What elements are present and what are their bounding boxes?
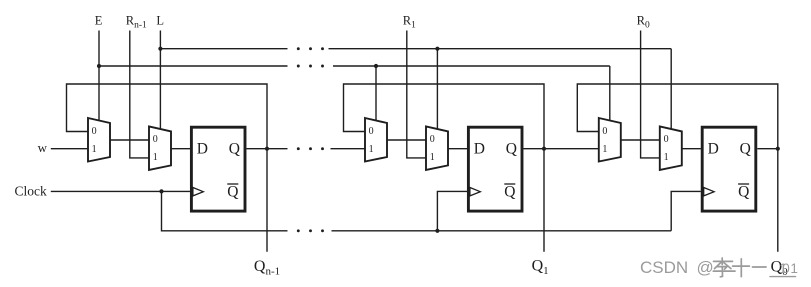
wire Q feedback loop stage 2	[344, 84, 545, 252]
svg-text:1: 1	[790, 261, 798, 276]
svg-text:CSDN: CSDN	[640, 258, 688, 277]
svg-text:Q: Q	[506, 141, 517, 158]
junction: Q node stage 1	[265, 147, 269, 151]
D flip-flop stage 2	[468, 127, 522, 211]
clock triangle stage 3	[704, 188, 714, 196]
wire w input	[51, 148, 88, 150]
svg-text:1: 1	[92, 144, 97, 155]
svg-text:0: 0	[430, 134, 435, 145]
multiplexer (L select) stage 2	[426, 126, 448, 169]
svg-text:@: @	[697, 258, 714, 277]
wire mux output stage 1	[110, 139, 149, 141]
wire L-bus right segment	[329, 48, 672, 50]
junction: E bus tap stage 1	[97, 64, 101, 68]
wire clock riser stage 2	[437, 191, 467, 230]
wire clock bus right segment	[332, 230, 672, 232]
svg-text:1: 1	[369, 144, 374, 155]
multiplexer (E select) stage 2	[365, 118, 387, 162]
svg-text:D: D	[708, 141, 719, 158]
clock triangle stage 1	[193, 188, 203, 196]
svg-text:Q: Q	[740, 141, 751, 158]
D flip-flop stage 1	[191, 127, 245, 211]
wire mux output stage 2	[387, 139, 426, 141]
ellipsis dots (bus continuation)	[297, 47, 300, 50]
wire Q feedback loop stage 1	[67, 84, 268, 252]
svg-text:1: 1	[664, 152, 669, 163]
junction: Q node stage 2	[542, 147, 546, 151]
multiplexer (E select) stage 3	[599, 118, 621, 162]
clock triangle stage 2	[470, 188, 480, 196]
wire Q output stage 2	[524, 148, 599, 150]
svg-text:Q: Q	[738, 184, 749, 201]
wire shift input stage 2	[331, 148, 366, 150]
wire E select vertical stage 1	[98, 31, 100, 122]
wire L select vertical stage 3	[670, 49, 672, 130]
wire Q output stage 3	[757, 148, 778, 150]
junction: E bus tap stage 2	[374, 64, 378, 68]
wire R input vertical stage 2	[407, 31, 426, 158]
junction: clock tap stage 2	[435, 229, 439, 233]
wire D input stage 2	[448, 148, 467, 150]
junction: L bus tap stage 1	[158, 47, 162, 51]
multiplexer (L select) stage 1	[149, 126, 171, 169]
svg-text:Q: Q	[504, 184, 515, 201]
junction: Q node stage 3	[776, 147, 780, 151]
wire R input vertical stage 3	[641, 31, 660, 158]
svg-text:w: w	[38, 140, 48, 155]
svg-text:Clock: Clock	[15, 183, 47, 198]
wire L select vertical stage 1	[159, 31, 161, 130]
svg-text:0: 0	[92, 126, 97, 137]
junction: L bus tap stage 2	[435, 47, 439, 51]
wire mux output stage 3	[621, 139, 660, 141]
svg-text:0: 0	[369, 126, 374, 137]
wire D input stage 3	[682, 148, 701, 150]
wire E select vertical stage 2	[375, 66, 377, 121]
watermark underline	[770, 276, 796, 278]
multiplexer (L select) stage 3	[660, 126, 682, 169]
multiplexer (E select) stage 1	[88, 118, 110, 162]
wire L-bus left segment	[160, 48, 287, 50]
svg-text:D: D	[197, 141, 208, 158]
svg-text:1: 1	[153, 152, 158, 163]
D flip-flop stage 3	[702, 127, 756, 211]
watermark CSDN @李十一101	[713, 258, 795, 277]
svg-text:L: L	[156, 14, 164, 28]
svg-text:Q: Q	[229, 141, 240, 158]
svg-text:1: 1	[430, 152, 435, 163]
svg-text:0: 0	[602, 126, 607, 137]
wire Q output stage 1	[247, 148, 288, 150]
svg-text:Q: Q	[227, 184, 238, 201]
wire clock riser stage 3	[671, 191, 701, 230]
svg-text:1: 1	[602, 144, 607, 155]
svg-text:E: E	[95, 14, 103, 28]
wire Q feedback loop stage 3	[577, 84, 778, 252]
wire clock input stage 1	[51, 190, 190, 192]
wire clock bus left segment	[162, 191, 288, 230]
wire D input stage 1	[171, 148, 190, 150]
svg-text:0: 0	[782, 261, 790, 276]
wire E-bus left segment	[99, 65, 288, 67]
junction: clock branch stage 1	[159, 189, 163, 193]
wire E-bus right segment	[333, 65, 610, 67]
svg-text:D: D	[474, 141, 485, 158]
wire E select vertical stage 3	[609, 66, 611, 121]
wire L select vertical stage 2	[436, 49, 438, 130]
svg-text:0: 0	[664, 134, 669, 145]
wire R input vertical stage 1	[130, 31, 149, 158]
svg-text:0: 0	[153, 134, 158, 145]
